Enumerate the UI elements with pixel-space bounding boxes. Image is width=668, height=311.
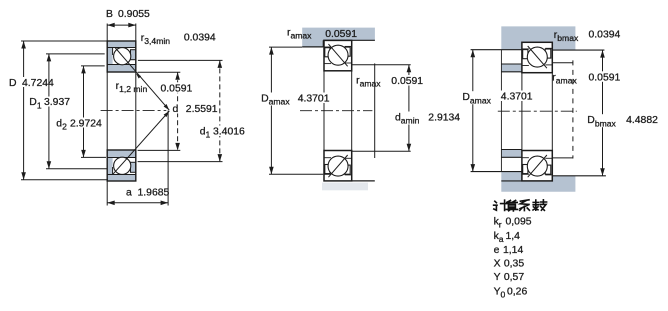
- shaft shoulder face line (middle): [374, 63, 376, 158]
- value 2.9134 (middle): [428, 113, 460, 124]
- svg-text:3.937: 3.937: [44, 97, 70, 108]
- label r34min: [141, 33, 170, 46]
- dim Dbmax line (right): [600, 50, 605, 176]
- value 0.0394 (right): [589, 29, 621, 40]
- dim d1 line (dashed): [218, 60, 223, 161]
- label r12min: [116, 81, 148, 94]
- shaft + abutment ring bottom (right): [501, 172, 575, 192]
- housing shoulder lines (right): [471, 42, 605, 50]
- housing shoulder strip (middle): [302, 28, 375, 47]
- value 4.4882 (right): [626, 115, 658, 126]
- value 0.0591 (r12): [159, 82, 194, 94]
- center axis (middle): [300, 110, 372, 112]
- dim D extension lines: [21, 41, 108, 180]
- label ramax right (middle): [356, 75, 381, 88]
- bearing section top (right diagram): [522, 42, 552, 72]
- bearing face lines (right): [522, 73, 552, 151]
- bearing face lines between halves: [107, 72, 136, 150]
- svg-text:0.0394: 0.0394: [184, 32, 216, 43]
- svg-text:4.3701: 4.3701: [298, 93, 330, 104]
- svg-text:e: e: [494, 245, 500, 256]
- dim Damax line (right): [471, 50, 476, 172]
- label a: [126, 187, 132, 198]
- svg-text:1,4: 1,4: [506, 231, 521, 242]
- dim a line: [107, 201, 168, 206]
- value 0.9055: [118, 9, 150, 20]
- value 3.937: [43, 97, 73, 109]
- svg-text:4.3701: 4.3701: [501, 92, 533, 103]
- value 0.0394 (r34): [184, 32, 216, 43]
- ra reference dashed line (right): [552, 60, 573, 158]
- svg-text:2.9134: 2.9134: [428, 113, 460, 124]
- bearing cross-section bottom half: outer ring, ball, inner ring (left diagram): [107, 150, 136, 181]
- svg-text:0.0394: 0.0394: [589, 29, 621, 40]
- dim D1 extension lines: [46, 54, 107, 169]
- dim damin ext lines (middle): [352, 65, 411, 152]
- bearing section bottom (middle diagram): [324, 151, 352, 181]
- washer face line (right): [500, 50, 502, 172]
- svg-text:0.0591: 0.0591: [589, 72, 621, 83]
- value 0.0591 right (middle): [389, 75, 424, 87]
- label Damax (middle): [259, 93, 290, 107]
- svg-text:0.0591: 0.0591: [391, 76, 423, 87]
- dim d2 extension lines: [81, 66, 106, 157]
- svg-text:a: a: [126, 187, 132, 198]
- label ramax (right): [552, 72, 577, 85]
- dim Damax ext lines (middle): [269, 47, 323, 174]
- shaft surface line + dithered shaft (middle): [322, 181, 375, 190]
- svg-text:1.9685: 1.9685: [138, 187, 170, 198]
- shaft shoulder lines (right): [471, 172, 606, 181]
- dim D line: [21, 41, 26, 180]
- bearing section top (middle diagram): [324, 40, 352, 70]
- table header 'calculation factors' (Chinese): [494, 200, 547, 211]
- dim d line (dashed): [175, 72, 180, 150]
- svg-text:0.0591: 0.0591: [161, 83, 193, 94]
- svg-text:1,14: 1,14: [503, 245, 523, 256]
- label ramax top (middle): [287, 28, 312, 41]
- svg-text:0,57: 0,57: [504, 272, 524, 283]
- value 4.7244: [20, 77, 56, 89]
- label damin (middle): [393, 112, 422, 126]
- svg-text:0.0591: 0.0591: [325, 29, 357, 40]
- svg-text:2.5591: 2.5591: [186, 104, 218, 115]
- label d2: [55, 118, 69, 132]
- label Damax (right): [460, 91, 491, 105]
- dim B line with arrows: [107, 23, 136, 28]
- bearing face lines (middle): [324, 71, 352, 151]
- value 2.9724: [69, 118, 106, 130]
- contact angle line (top): [115, 48, 169, 111]
- svg-text:0,35: 0,35: [504, 259, 524, 270]
- value 0.0591 (right): [587, 71, 622, 83]
- table rows: kr 0,095 / ka 1,4 / e 1,14 / X 0,35 / Y 0,57 / Y0 0,26: [494, 217, 532, 300]
- dim B extension lines: [107, 24, 136, 42]
- svg-text:Y: Y: [494, 272, 501, 283]
- svg-text:B: B: [106, 9, 113, 20]
- label D1: [27, 97, 42, 111]
- housing + abutment ring top (right): [501, 26, 575, 50]
- label D: [7, 77, 18, 89]
- label d: [171, 103, 183, 115]
- svg-text:X: X: [494, 259, 501, 270]
- label B: [106, 9, 113, 20]
- dim a extension lines: [107, 111, 168, 206]
- r12 leader arrowhead: [136, 73, 141, 78]
- dim d extension lines: [138, 72, 181, 150]
- label rbmax (right): [554, 30, 579, 43]
- dim d2 line: [81, 66, 86, 157]
- svg-text:d: d: [173, 104, 179, 115]
- dim damin line (middle): [407, 65, 412, 152]
- svg-text:3.4016: 3.4016: [213, 127, 245, 138]
- side washer upper (right): [501, 64, 522, 72]
- side washer lower (right): [501, 150, 522, 158]
- svg-text:2.9724: 2.9724: [70, 118, 102, 129]
- value 1.9685: [138, 187, 170, 198]
- label Dbmax (right): [585, 114, 618, 128]
- svg-text:0,26: 0,26: [507, 286, 527, 297]
- svg-text:D: D: [9, 78, 17, 89]
- bearing cross-section top half: outer ring, ball, inner ring (left diagram): [107, 41, 136, 72]
- center axis (left diagram): [101, 110, 167, 112]
- svg-text:4.4882: 4.4882: [626, 115, 658, 126]
- label d1: [198, 126, 212, 140]
- svg-text:0.9055: 0.9055: [118, 9, 150, 20]
- center axis (right): [498, 110, 577, 112]
- value 4.3701 (right): [499, 91, 534, 103]
- contact angle line (bottom): [113, 111, 170, 175]
- value 0.0591 top (middle): [325, 29, 357, 40]
- svg-text:0,095: 0,095: [506, 217, 532, 228]
- dim Damax line (middle): [269, 47, 274, 174]
- value 2.5591: [184, 103, 219, 115]
- dim D1 line: [47, 54, 52, 169]
- value 4.3701 (middle): [296, 93, 331, 105]
- bearing section bottom (right diagram): [522, 151, 552, 181]
- dim d1 extension lines: [138, 60, 223, 161]
- value 3.4016: [212, 126, 248, 138]
